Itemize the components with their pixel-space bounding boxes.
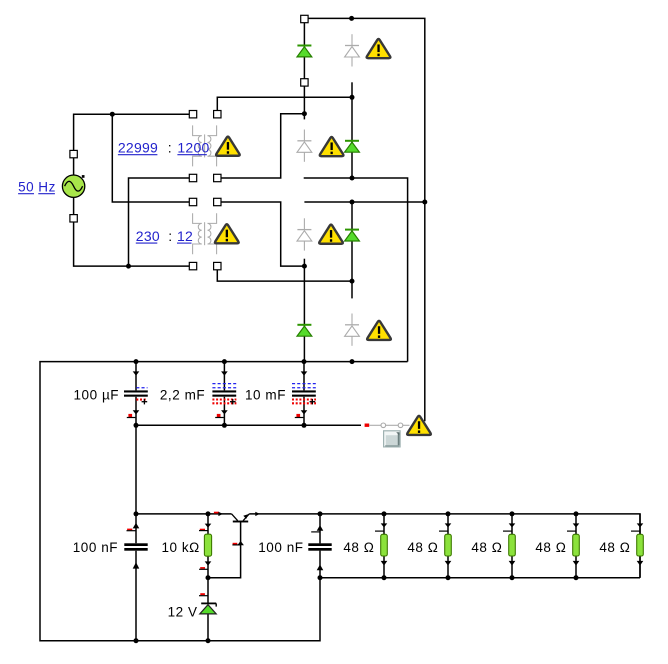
- resistor R2 48 Ohm: [381, 534, 388, 556]
- svg-text:12: 12: [177, 228, 193, 244]
- wire: bridge mid row to right rail down to filter bus: [304, 178, 408, 362]
- diode D7 (inactive): [303, 218, 305, 229]
- warning icon at D8: [367, 321, 391, 340]
- svg-text:48 Ω: 48 Ω: [471, 540, 502, 555]
- svg-text:48 Ω: 48 Ω: [407, 540, 438, 555]
- wire: R1 and D9 zener branch leads: [207, 514, 209, 641]
- svg-text:48 Ω: 48 Ω: [599, 540, 630, 555]
- wire: bridge lower mid row to outer right rail: [304, 201, 424, 203]
- wire: R2 leads: [383, 514, 385, 578]
- wire: stub below node: [351, 281, 353, 298]
- junction at (352,361.6): [350, 359, 355, 364]
- junction at (576,577.7): [574, 575, 579, 580]
- junction at (384,513.9): [382, 511, 387, 516]
- svg-text:Hz: Hz: [38, 179, 56, 194]
- junction at (224.4,425.3): [222, 423, 227, 428]
- wire: stub above node: [303, 259, 305, 266]
- transformer T1 (22999:1200) coil symbol: [193, 125, 202, 135]
- junction at (352,202): [350, 200, 355, 205]
- diode D3: [345, 229, 359, 231]
- junction at (136,361.6): [134, 359, 139, 364]
- wire: top rail branch down to T2 primary top terminal: [112, 114, 193, 202]
- warning icon at D6: [320, 137, 344, 156]
- junction at (128.5,266.1): [126, 264, 131, 269]
- terminal T1 primary bottom: [189, 174, 196, 181]
- junction at (136,425.3): [134, 423, 139, 428]
- capacitor C4 100 nF: [124, 543, 147, 546]
- terminal T2 primary top: [189, 198, 196, 205]
- wire: D3 branch vertical: [351, 202, 353, 281]
- wire: C4 input cap leads: [135, 514, 137, 641]
- junction at (512,513.9): [510, 511, 515, 516]
- wire: AC source bottom lead to transformers bottom rail: [74, 186, 193, 266]
- wire: C2 leads: [223, 362, 225, 426]
- diode D8 (inactive): [351, 314, 353, 325]
- wire: D4 branch vertical: [303, 266, 305, 362]
- wire: T2 secondary bottom down and right: [217, 266, 352, 281]
- wire: D1 branch vertical: [303, 19, 305, 82]
- terminal T2 secondary bottom: [214, 262, 221, 269]
- terminal T1 secondary bottom: [214, 174, 221, 181]
- junction at (320,513.9): [318, 511, 323, 516]
- wire: filter bus, left rail and ground return: [40, 362, 408, 641]
- resistor R6 48 Ohm: [637, 534, 644, 556]
- terminal T2 secondary top: [214, 198, 221, 205]
- wire: top bridge output to outer right rail down to switch: [304, 18, 424, 421]
- terminal T1 primary top: [189, 111, 196, 118]
- wire: load ladder bottom bus: [320, 577, 640, 579]
- wire: T1 secondary bottom jog to D-column node: [217, 114, 304, 178]
- wire: T1 secondary top terminal up and right to bridge node: [217, 97, 352, 114]
- junction at (208,577.7): [206, 575, 211, 580]
- capacitor C3 10 mF: [292, 390, 316, 392]
- terminal T2 primary bottom: [189, 262, 196, 269]
- switch S1 push button: [384, 431, 401, 447]
- svg-text:230: 230: [136, 228, 160, 244]
- junction at (352,281.1): [350, 279, 355, 284]
- diode D4: [297, 324, 311, 326]
- resistor R1 10 kOhm: [204, 534, 211, 556]
- warning icon at S1: [407, 416, 431, 435]
- svg-text::: :: [168, 228, 172, 244]
- switch S1 (open contact symbol): [365, 424, 370, 427]
- diode D5 (inactive): [351, 34, 353, 45]
- junction at (208,640.7): [206, 638, 211, 643]
- svg-text:10 kΩ: 10 kΩ: [161, 540, 199, 555]
- junction at (304,425.3): [302, 423, 307, 428]
- wire: D2 branch vertical: [351, 97, 353, 178]
- wire: R5 leads: [575, 514, 577, 578]
- diode D6 (inactive): [303, 130, 305, 141]
- junction at (208,513.9): [206, 511, 211, 516]
- svg-text:48 Ω: 48 Ω: [535, 540, 566, 555]
- junction at (112.3,114.2): [110, 112, 115, 117]
- wire: capacitor bank bottom bus to switch: [136, 424, 361, 426]
- wire: T1 primary bottom terminal down to bottom rail: [129, 178, 194, 266]
- capacitor C2 2.2 mF: [212, 390, 236, 392]
- resistor R5 48 Ohm: [573, 534, 580, 556]
- transformer T2 (230:12) coil symbol: [193, 213, 202, 223]
- wire: stub above D2 column: [351, 82, 353, 97]
- resistor R3 48 Ohm: [445, 534, 452, 556]
- transistor Q1 (NPN emitter follower): [232, 514, 250, 522]
- current arrow into collector: [214, 512, 219, 514]
- wire: T2 secondary top jog to lower bridge node: [217, 202, 304, 266]
- svg-text:10 mF: 10 mF: [245, 387, 286, 402]
- junction at (424.8,202): [422, 200, 427, 205]
- current arrow out of emitter: [255, 512, 259, 516]
- junction at (136,513.9): [134, 511, 139, 516]
- warning icon at T1: [216, 137, 240, 156]
- warning icon at D7: [319, 225, 343, 244]
- wire: R3 leads: [447, 514, 449, 578]
- diode D2: [345, 140, 359, 142]
- terminal D1 cathode: [301, 15, 308, 22]
- junction at (576,513.9): [574, 511, 579, 516]
- junction at (448,513.9): [446, 511, 451, 516]
- junction at (304.4,266.1): [302, 264, 307, 269]
- junction at (512,577.7): [510, 575, 515, 580]
- svg-text:48 Ω: 48 Ω: [343, 540, 374, 555]
- junction at (304.4,113.7): [302, 111, 307, 116]
- warning icon at D5: [367, 39, 391, 58]
- capacitor C5 100 nF: [308, 543, 331, 546]
- svg-text:100 nF: 100 nF: [258, 540, 303, 555]
- svg-text:12 V: 12 V: [168, 604, 198, 619]
- wire: R4 leads: [511, 514, 513, 578]
- current arrow on base: [233, 543, 238, 545]
- svg-text:2,2 mF: 2,2 mF: [160, 387, 205, 402]
- terminal of V1 (bottom): [70, 215, 77, 222]
- terminal of V1 (top): [70, 150, 77, 157]
- warning icon at T2: [215, 224, 239, 243]
- wire: C5 output cap leads: [319, 514, 321, 578]
- wire: C3 leads: [303, 362, 305, 426]
- svg-text:1200: 1200: [177, 140, 209, 156]
- wire: emitter output bus to load ladder: [249, 514, 640, 578]
- junction at (448,577.7): [446, 575, 451, 580]
- junction at (304,361.6): [302, 359, 307, 364]
- terminal D1 anode: [301, 79, 308, 86]
- junction at (351.6,18.4): [349, 16, 354, 21]
- wire: stub from D1 anode to junction: [303, 86, 305, 119]
- junction at (352,97.3): [350, 95, 355, 100]
- junction at (352,178): [350, 176, 355, 181]
- diode D1: [297, 45, 311, 47]
- zener diode D9 12 V: [201, 602, 216, 604]
- junction at (320,577.7): [318, 575, 323, 580]
- junction at (384,577.7): [382, 575, 387, 580]
- svg-text:22999: 22999: [118, 140, 158, 156]
- svg-text:100 nF: 100 nF: [73, 540, 118, 555]
- svg-text:100 µF: 100 µF: [73, 387, 119, 402]
- wire: unregulated DC bus to transistor collector: [136, 513, 232, 515]
- wire: AC source top lead to transformers top rail: [74, 114, 193, 186]
- capacitor C1 100 uF: [124, 390, 148, 392]
- svg-text:50: 50: [18, 179, 34, 194]
- wire: C1 leads: [135, 362, 137, 514]
- resistor R4 48 Ohm: [509, 534, 516, 556]
- wire: transistor base lead to zener node: [208, 522, 241, 578]
- junction at (224.4,361.6): [222, 359, 227, 364]
- AC source V1 50 Hz: [62, 175, 84, 197]
- terminal T1 secondary top: [214, 111, 221, 118]
- svg-text::: :: [168, 140, 172, 156]
- wire: R6 leads: [639, 514, 641, 578]
- junction at (136,640.7): [134, 638, 139, 643]
